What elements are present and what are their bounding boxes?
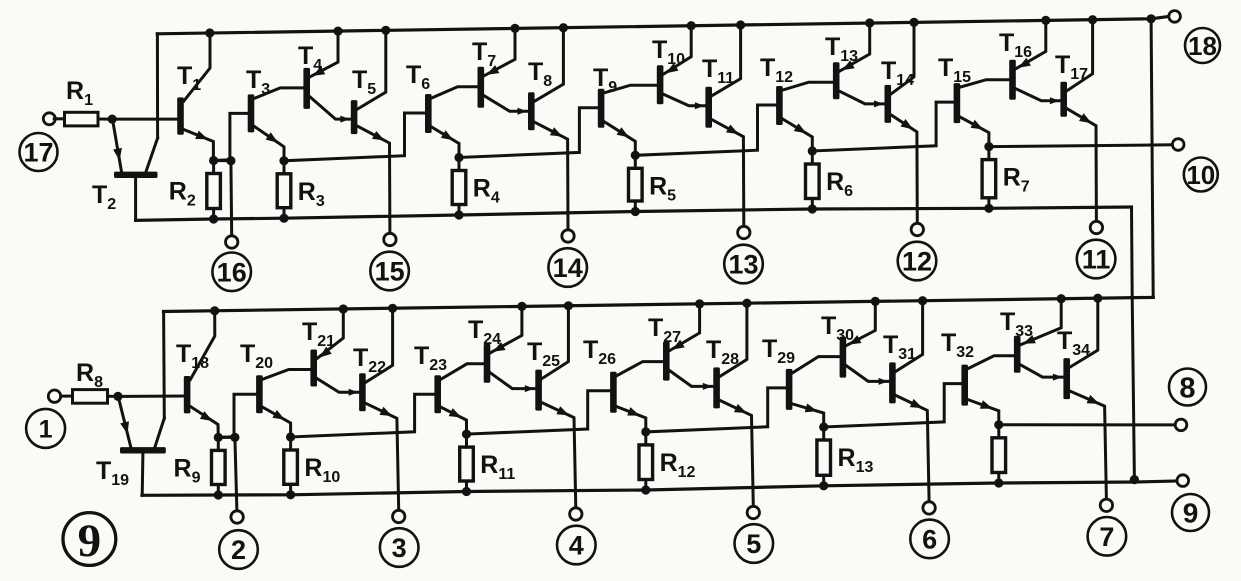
- svg-text:R5: R5: [649, 172, 676, 204]
- wire T27 emitter from rail: [670, 304, 700, 351]
- transistor T14: [885, 85, 892, 123]
- transistor T18: [184, 376, 191, 413]
- svg-text:T24: T24: [468, 316, 501, 348]
- terminal pin 2 open circle: [231, 511, 243, 523]
- pin label 15: [370, 252, 409, 291]
- node T23 emitter / resistor top: [462, 430, 471, 439]
- svg-text:R8: R8: [76, 359, 103, 391]
- wire T15 emitter to R node: [960, 117, 989, 147]
- transistor T34: [1063, 358, 1070, 399]
- wire T17 collector to top rail: [1067, 20, 1093, 91]
- pin label 9 (big, bottom left): [63, 513, 116, 566]
- wire pin 16 drop: [229, 161, 233, 236]
- transistor T32: [961, 365, 968, 406]
- pin label 8: [1169, 369, 1206, 406]
- node T12 emitter / resistor top: [808, 146, 817, 155]
- svg-text:12: 12: [902, 247, 932, 277]
- wire T23 emitter to R node: [441, 407, 467, 434]
- wire pin17 to R1: [54, 117, 64, 120]
- wire bus segment to T6 base: [284, 113, 425, 161]
- resistor R4: [458, 158, 461, 171]
- transistor T10: [657, 65, 664, 104]
- terminal pin 15 open circle: [384, 233, 396, 245]
- wire T6 emitter to R node: [432, 127, 459, 158]
- pin label 4: [557, 526, 596, 565]
- svg-text:10: 10: [1186, 160, 1215, 190]
- pin label 17: [20, 133, 58, 171]
- resistor R14: [997, 425, 1000, 438]
- node T6 emitter / resistor top: [454, 153, 463, 162]
- wire pin 2 drop: [235, 437, 237, 510]
- terminal pin 14 open circle: [562, 230, 574, 242]
- pin label 16: [212, 252, 251, 291]
- svg-text:9: 9: [1183, 498, 1199, 529]
- svg-text:11: 11: [1082, 245, 1111, 275]
- node T9 emitter / resistor top: [631, 151, 640, 160]
- resistor R6: [811, 151, 814, 164]
- transistor T28: [713, 367, 720, 408]
- terminal pin 7 open circle: [1100, 499, 1112, 511]
- transistor T27: [663, 342, 670, 381]
- svg-text:T21: T21: [302, 318, 335, 350]
- wire R8 to node B: [108, 395, 119, 398]
- svg-text:T25: T25: [527, 338, 560, 370]
- terminal pin 5 open circle: [747, 506, 759, 518]
- transistor T4: [303, 68, 310, 109]
- transistor T16: [1009, 60, 1016, 100]
- svg-text:T10: T10: [652, 36, 685, 68]
- svg-text:2: 2: [231, 535, 246, 565]
- wire T13 emitter from top rail: [840, 23, 870, 71]
- svg-text:T18: T18: [176, 340, 209, 372]
- transistor T30: [840, 337, 847, 378]
- svg-text:T19: T19: [96, 457, 129, 489]
- terminal pin 10 open circle: [1172, 139, 1184, 151]
- node T18 emitter / R9 top: [214, 433, 223, 442]
- svg-text:T31: T31: [883, 331, 916, 363]
- wire bottom rail right drop to lower section: [1132, 207, 1135, 480]
- svg-text:T20: T20: [240, 340, 273, 372]
- transistor T29: [786, 369, 793, 410]
- wire rail left drop to T19 collector: [162, 312, 166, 419]
- node T1 emitter / R2 top: [209, 156, 218, 165]
- wire bus segment to T26 base: [467, 391, 611, 434]
- svg-text:T30: T30: [821, 312, 854, 344]
- svg-text:T17: T17: [1055, 51, 1088, 83]
- wire T20 emitter to R node: [263, 407, 291, 437]
- transistor T7: [478, 67, 485, 108]
- wire T17 emitter to pin: [1067, 109, 1096, 222]
- wire node R2 to T3 base riser: [214, 159, 231, 162]
- svg-text:17: 17: [23, 138, 53, 168]
- node top rail / T1 collector: [205, 28, 214, 37]
- wire T30 collector to T31 base: [846, 366, 889, 382]
- svg-text:T7: T7: [472, 38, 496, 70]
- svg-text:7: 7: [1099, 522, 1114, 552]
- svg-text:T34: T34: [1057, 327, 1090, 359]
- svg-text:T14: T14: [881, 57, 914, 89]
- node T3 emitter / resistor top: [279, 156, 288, 165]
- wire T32 emitter to R node: [968, 400, 999, 425]
- pin label 9 (right): [1172, 494, 1209, 531]
- svg-text:R10: R10: [304, 454, 340, 486]
- transistor T20: [256, 375, 263, 413]
- transistor T21: [310, 350, 317, 387]
- svg-text:T13: T13: [825, 33, 858, 65]
- wire top rail drop to lower section rail (right): [1151, 19, 1153, 298]
- svg-text:T23: T23: [414, 342, 447, 374]
- wire node A to T1 base: [112, 118, 177, 121]
- pin label 7: [1088, 517, 1127, 556]
- pin label 11: [1077, 240, 1116, 279]
- svg-text:R3: R3: [298, 178, 325, 210]
- wire bus segment to T29 base: [646, 388, 786, 432]
- wire T25 collector to rail: [542, 306, 569, 379]
- wire T24 collector to T25 base: [490, 373, 535, 389]
- svg-text:R2: R2: [169, 178, 196, 210]
- wire T22 emitter to pin: [366, 403, 399, 510]
- transistor T26: [610, 372, 617, 413]
- resistor R13: [822, 427, 825, 440]
- resistor R5: [634, 155, 637, 168]
- svg-text:18: 18: [1188, 31, 1217, 61]
- wire T14 collector to top rail: [891, 22, 914, 94]
- wire T21 collector to T22 base: [317, 379, 359, 393]
- wire T12 emitter to R node: [783, 119, 813, 151]
- wire R1 to node A: [98, 118, 112, 121]
- transistor T24: [484, 344, 491, 383]
- resistor R1: [65, 112, 99, 126]
- wire node B to T18 base: [118, 395, 184, 398]
- wire T3 emitter to R node: [254, 126, 284, 160]
- svg-text:5: 5: [746, 529, 761, 559]
- svg-text:T9: T9: [593, 64, 617, 96]
- wire T24 emitter from rail: [490, 306, 522, 352]
- resistor R8: [73, 390, 108, 404]
- resistor R3: [283, 161, 286, 174]
- wire T7 emitter from top rail: [484, 28, 515, 75]
- wire bottom rail of top section: [136, 207, 1132, 220]
- wire T34 collector to rail: [1070, 298, 1098, 367]
- wire T28 collector to rail: [720, 303, 747, 376]
- node T20 emitter / resistor top: [286, 432, 295, 441]
- terminal pin 3 open circle: [393, 510, 405, 522]
- wire bus segment to T20 base: [218, 394, 256, 437]
- svg-text:R9: R9: [174, 454, 201, 486]
- svg-text:T15: T15: [938, 54, 971, 86]
- terminal pin 1 open circle: [48, 390, 60, 402]
- svg-text:R11: R11: [480, 451, 515, 483]
- wire bus segment to T23 base: [291, 394, 435, 437]
- svg-text:T2: T2: [92, 181, 116, 213]
- wire T10 collector to T11 base: [663, 94, 705, 106]
- transistor T31: [889, 362, 896, 403]
- transistor T8: [528, 92, 535, 130]
- node T15 emitter / resistor top: [984, 142, 993, 151]
- resistor R10: [289, 437, 292, 450]
- wire T13 collector to T14 base: [840, 91, 885, 104]
- node A (T1 base / T2 emitter junction): [108, 115, 117, 124]
- svg-text:3: 3: [392, 533, 407, 563]
- wire T25 emitter to pin: [542, 403, 576, 508]
- pin label 12: [898, 242, 937, 281]
- terminal pin 4 open circle: [570, 508, 582, 520]
- wire T21 emitter from rail: [317, 309, 343, 359]
- resistor R9: [217, 437, 220, 450]
- wire T22 collector to rail: [366, 308, 393, 382]
- wire T5 emitter to pin: [357, 126, 390, 233]
- transistor T23: [434, 375, 441, 413]
- wire pin1 to R8: [61, 395, 73, 398]
- terminal pin 8 open circle: [1175, 419, 1187, 431]
- terminal pin 17 open circle: [43, 113, 55, 125]
- wire T8 collector to top rail: [535, 28, 564, 102]
- pin label 6: [910, 520, 949, 559]
- svg-text:1: 1: [39, 415, 53, 443]
- svg-text:R6: R6: [826, 168, 853, 200]
- pin label 2: [219, 530, 258, 569]
- pin label 5: [735, 524, 774, 563]
- resistor R2: [212, 161, 215, 174]
- wire T33 emitter from rail: [1021, 299, 1062, 345]
- wire T33 collector to T34 base: [1021, 365, 1064, 377]
- wire T5 collector to top rail: [357, 30, 385, 109]
- pin label 1: [26, 409, 65, 448]
- wire bus segment to T12 base: [635, 105, 776, 155]
- wire bottom rail of bottom section (pin 9 net): [142, 481, 1177, 495]
- transistor T22: [359, 373, 366, 411]
- resistor R12: [644, 432, 647, 445]
- svg-text:T5: T5: [352, 66, 376, 98]
- resistor R11: [465, 434, 468, 447]
- pin label 13: [724, 245, 763, 284]
- svg-text:13: 13: [728, 250, 758, 280]
- node top rail left corner drop to T2 collector: [156, 34, 159, 138]
- wire T8 emitter to pin: [535, 122, 568, 230]
- svg-text:T8: T8: [528, 58, 552, 90]
- wire T30 emitter from rail: [846, 301, 875, 345]
- transistor T2 (tilted, base to ground rail): [114, 172, 158, 178]
- terminal pin 9 open circle: [1177, 475, 1189, 487]
- node T32 emitter / resistor top: [994, 420, 1003, 429]
- node rail / T18 collector: [210, 306, 219, 315]
- wire T16 emitter from top rail: [1016, 20, 1046, 68]
- node T29 emitter / resistor top: [819, 422, 828, 431]
- terminal pin 6 open circle: [923, 502, 935, 514]
- pin label 10: [1184, 158, 1218, 192]
- node long vertical / bottom rail: [1130, 475, 1139, 484]
- svg-text:T3: T3: [246, 66, 270, 98]
- svg-text:T26: T26: [583, 336, 616, 368]
- svg-text:T33: T33: [1000, 308, 1033, 340]
- wire node R9 to T20 riser: [218, 436, 235, 439]
- terminal pin 13 open circle: [738, 226, 750, 238]
- transistor T15: [954, 83, 961, 123]
- wire bus segment to T15 base: [812, 102, 953, 151]
- transistor T6: [425, 94, 432, 133]
- node B (T18 base / T19 emitter junction): [113, 392, 122, 401]
- wire T34 emitter to pin: [1070, 391, 1106, 499]
- transistor T12: [776, 86, 783, 125]
- svg-text:T32: T32: [941, 329, 974, 361]
- transistor T17: [1060, 82, 1067, 117]
- wire R7 node to pin 10: [989, 145, 1172, 147]
- transistor T11: [705, 87, 712, 128]
- transistor T3: [248, 94, 255, 132]
- wire T16 collector to T17 base: [1016, 89, 1061, 101]
- transistor T1: [177, 97, 184, 134]
- wire T26 emitter to R node: [617, 407, 646, 432]
- node T26 emitter / resistor top: [641, 427, 650, 436]
- svg-text:15: 15: [375, 257, 405, 287]
- svg-text:T16: T16: [999, 29, 1032, 61]
- transistor T5: [351, 100, 358, 134]
- transistor T9: [598, 89, 605, 128]
- svg-text:R4: R4: [473, 175, 500, 207]
- svg-text:T4: T4: [298, 42, 322, 74]
- wire bus segment to T32 base: [824, 384, 962, 427]
- wire T4 collector to T5 base: [310, 97, 351, 119]
- wire bus segment to T9 base: [459, 108, 598, 158]
- pin label 18: [1185, 28, 1220, 63]
- transistor T19 (tilted, base to ground rail): [120, 447, 166, 453]
- wire T10 emitter from top rail: [663, 26, 691, 74]
- transistor T33: [1014, 336, 1021, 373]
- svg-text:T28: T28: [706, 336, 739, 368]
- wire T14 emitter to pin: [891, 115, 917, 223]
- pin label 3: [380, 528, 419, 567]
- transistor T13: [833, 62, 840, 99]
- svg-text:T11: T11: [702, 55, 734, 87]
- pin label 14: [548, 248, 587, 287]
- wire T9 emitter to R node: [604, 122, 635, 156]
- terminal pin 11 open circle: [1090, 221, 1102, 233]
- wire top rail of bottom section: [164, 297, 1154, 311]
- resistor R7: [987, 147, 990, 160]
- wire T29 emitter to R node: [792, 404, 823, 427]
- wire T28 emitter to pin: [720, 400, 753, 506]
- svg-text:T29: T29: [762, 335, 795, 367]
- wire R14 node to pin 8: [999, 423, 1175, 426]
- svg-text:9: 9: [78, 515, 102, 567]
- svg-text:R7: R7: [1003, 164, 1030, 196]
- wire T7 collector to T8 base: [484, 96, 528, 112]
- svg-text:14: 14: [553, 253, 583, 283]
- wire T4 emitter from top rail: [310, 31, 338, 77]
- wire T11 emitter to pin: [712, 120, 744, 227]
- svg-text:6: 6: [922, 525, 937, 555]
- svg-text:8: 8: [1179, 372, 1195, 404]
- terminal pin 12 open circle: [911, 223, 923, 235]
- svg-text:T27: T27: [648, 314, 681, 346]
- transistor T25: [535, 370, 542, 411]
- svg-text:R1: R1: [66, 77, 93, 109]
- svg-text:T22: T22: [353, 344, 386, 376]
- terminal pin 18 open circle: [1169, 11, 1181, 23]
- svg-text:R12: R12: [660, 449, 696, 481]
- svg-text:R13: R13: [838, 444, 874, 476]
- terminal pin 16 open circle: [226, 236, 238, 248]
- wire top supply rail (pin 18 net): [157, 17, 1168, 34]
- wire T31 collector to rail: [896, 301, 923, 372]
- svg-text:T1: T1: [177, 62, 201, 94]
- svg-text:16: 16: [217, 258, 247, 288]
- wire T11 collector to top rail: [712, 25, 741, 96]
- wire bus segment to T3 base: [214, 113, 248, 160]
- svg-text:4: 4: [569, 531, 584, 561]
- wire T27 collector to T28 base: [670, 371, 714, 387]
- wire T31 emitter to pin: [896, 395, 929, 501]
- svg-text:T6: T6: [406, 61, 430, 93]
- svg-text:T12: T12: [760, 54, 793, 86]
